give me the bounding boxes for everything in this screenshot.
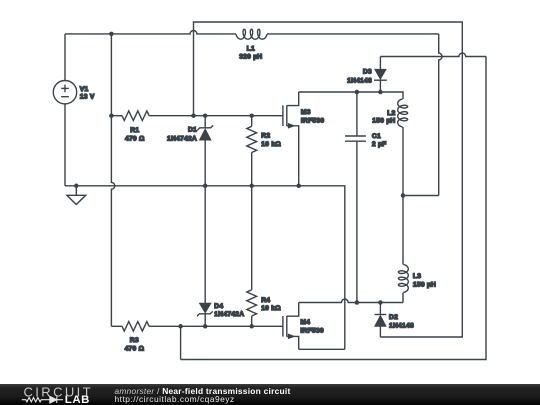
svg-text:R2: R2 (261, 133, 270, 140)
svg-text:R3: R3 (130, 337, 139, 344)
junction: C1 bottom (355, 300, 360, 305)
wire: ground row (y=185.8) from V1 minus to M4-source drop (65, 186, 345, 349)
junction: ground stem (74, 184, 79, 189)
svg-text:L1: L1 (247, 45, 255, 52)
svg-text:10 kΩ: 10 kΩ (261, 305, 281, 312)
junction: x=111.4 on top wire (109, 32, 114, 37)
svg-text:320 µH: 320 µH (239, 53, 262, 60)
junction: D3 cathode on drain row (378, 90, 383, 95)
nmos M3 IRF530 (283, 92, 324, 186)
junction: R4 bottom on R3 row (249, 324, 254, 329)
capacitor C1 2uF (345, 92, 386, 303)
zener diode D1 1N4742A (167, 116, 213, 186)
junction: C1 top on drain row (355, 90, 360, 95)
junction: M3 source on ground row (296, 184, 301, 189)
svg-text:470 Ω: 470 Ω (125, 346, 145, 353)
resistor R4 10k (247, 186, 281, 326)
svg-text:470 Ω: 470 Ω (125, 136, 145, 143)
svg-text:L2: L2 (387, 110, 395, 117)
junction: D2 top (378, 300, 383, 305)
svg-text:D1: D1 (188, 127, 197, 134)
svg-text:D3: D3 (363, 68, 372, 75)
svg-text:1N4742A: 1N4742A (214, 311, 244, 318)
wire: top net from node above M3-gate row to D2 anode loop (y=22) (194, 22, 463, 337)
svg-text:M4: M4 (300, 319, 310, 326)
voltage source V1 13V (53, 34, 95, 186)
junction: D1 bottom on ground row (203, 184, 208, 189)
resistor R2 10k (247, 116, 282, 186)
wire: D3 anode to M4-gate net (y=56.5) with hop over x=462.3 (380, 53, 486, 56)
svg-text:IRF530: IRF530 (301, 117, 324, 124)
inductor L2 150uH (372, 99, 407, 196)
svg-text:C1: C1 (372, 133, 381, 140)
svg-text:LAB: LAB (65, 394, 90, 405)
inductor L3 150uH (398, 265, 436, 303)
diode D2 1N4148 (375, 303, 414, 338)
junction: R2 top (249, 113, 254, 118)
wire: vertical x=486 right side down to y=359.5 (181, 57, 486, 360)
junction: L2 bottom node (401, 193, 406, 198)
svg-text:M3: M3 (301, 109, 311, 116)
svg-text:D2: D2 (389, 314, 398, 321)
junction: R3 right node to lower loop (178, 324, 183, 329)
svg-text:D4: D4 (214, 303, 223, 310)
wire: gate row y=115.7 to M3 gate (194, 115, 283, 117)
svg-text:http://circuitlab.com/cqa9eyz: http://circuitlab.com/cqa9eyz (115, 394, 235, 404)
wire: M3 drain row (y=92) to L2 top (299, 92, 403, 99)
nmos M4 IRF530 (283, 303, 324, 350)
diode D3 1N4148 (347, 57, 387, 93)
wire: L1 right to L2 bottom node (267, 33, 439, 35)
CircuitLab logo glyph: resistor and diode (22, 396, 63, 403)
svg-text:150 µH: 150 µH (372, 118, 395, 125)
svg-text:2 µF: 2 µF (372, 141, 387, 148)
junction: D4 bottom on R3 row (203, 324, 208, 329)
svg-text:10 kΩ: 10 kΩ (261, 141, 281, 148)
wire: V1 plus to L1 (y=34) with hop over x=193.5 (65, 31, 236, 34)
footer banner (0, 384, 540, 405)
zener diode D4 1N4742A (197, 186, 244, 326)
svg-text:R4: R4 (261, 297, 270, 304)
inductor L1 320uH (236, 29, 267, 39)
resistor R1 470 Ohm (111, 111, 193, 143)
svg-text:R1: R1 (130, 127, 139, 134)
svg-text:150 µH: 150 µH (413, 282, 436, 289)
wire: L2 bottom to x=438.7 vertical (y=195.5) (403, 195, 439, 197)
wire: vertical x=111.4 from top wire to R3 row, hop over ground row (111, 34, 114, 326)
resistor R3 470 Ohm (111, 321, 283, 352)
wire: vertical x=180.6 from R3 row down to y=359.5 (180, 326, 182, 359)
junction: top-net drop on gate row (191, 113, 196, 118)
wire: L2/L3 middle vertical (402, 196, 404, 265)
wire: M4 source row (y=349.3) (299, 348, 345, 350)
junction: R1 left node (109, 113, 114, 118)
wire: vertical x=438.7 from L1 wire down to L2 bottom wire, hop over y=56.5 (439, 34, 442, 196)
svg-text:1N4148: 1N4148 (389, 323, 414, 330)
wire: M4 drain row (y=302.5) to L3 bottom, hop over x=344.8 (299, 299, 403, 302)
svg-text:1N4148: 1N4148 (347, 77, 372, 84)
junction: D1 top (203, 113, 208, 118)
svg-text:V1: V1 (80, 86, 89, 93)
svg-text:IRF530: IRF530 (300, 328, 323, 335)
svg-text:13 V: 13 V (80, 94, 95, 101)
svg-text:1N4742A: 1N4742A (167, 135, 197, 142)
junction: R2 bottom on ground row (249, 184, 254, 189)
ground symbol (67, 186, 86, 205)
svg-text:L3: L3 (413, 273, 421, 280)
